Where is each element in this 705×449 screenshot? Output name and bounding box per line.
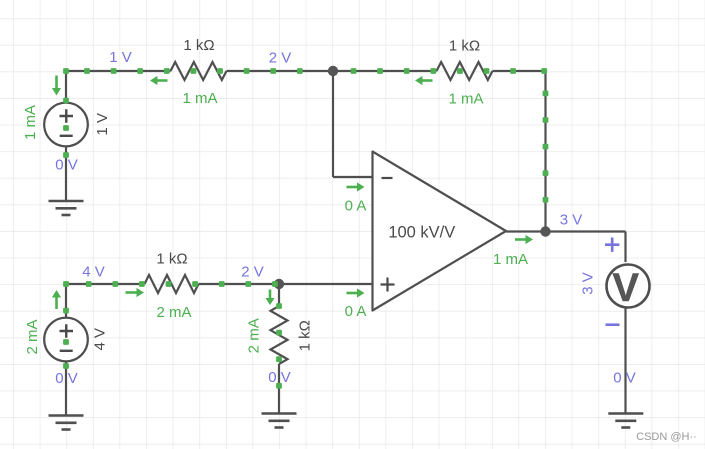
svg-text:2 mA: 2 mA (156, 304, 191, 321)
resistor R3 1 kOhm (input bottom) (145, 275, 199, 293)
svg-text:2 mA: 2 mA (24, 319, 41, 354)
svg-text:0 V: 0 V (55, 157, 78, 174)
wire: R4 bottom to ground (278, 364, 280, 414)
wire: output node to voltmeter branch (546, 230, 626, 232)
current arrow at non-inverting input (right) (347, 292, 358, 295)
voltage source V1 (1 V) (44, 103, 88, 147)
svg-text:3 V: 3 V (560, 212, 583, 229)
svg-text:2 V: 2 V (269, 50, 292, 67)
wire: to op-amp inverting input (333, 176, 374, 178)
ground under V2 (49, 414, 84, 417)
current arrow into R4 (down) (269, 290, 272, 299)
svg-text:2 V: 2 V (241, 264, 264, 281)
wire: V2 top to bottom rail (65, 284, 67, 318)
svg-text:4 V: 4 V (82, 264, 105, 281)
op-amp U1 non-inverting pin mark (381, 278, 395, 292)
current arrow at R3 (right) (126, 291, 137, 294)
svg-text:0 A: 0 A (345, 198, 367, 215)
svg-text:V: V (612, 266, 639, 310)
svg-text:4 V: 4 V (92, 328, 109, 351)
svg-text:100 kV/V: 100 kV/V (388, 224, 455, 242)
resistor R1 1 kOhm (input top) (171, 62, 227, 80)
wire: node B to op-amp non-inverting input (279, 283, 374, 285)
svg-text:1 mA: 1 mA (493, 251, 528, 268)
svg-text:1 kΩ: 1 kΩ (449, 38, 480, 55)
op-amp U1 (373, 152, 507, 311)
wire: R3 to node B (199, 283, 280, 285)
wire: R1 to node A (227, 70, 334, 72)
ground under R4 (262, 412, 297, 415)
node A (2 V junction, top) (328, 66, 338, 76)
voltmeter VM1 minus terminal mark (606, 323, 620, 326)
svg-text:1 kΩ: 1 kΩ (156, 251, 187, 268)
voltmeter VM1 (607, 265, 650, 308)
wire: VM1 bottom to ground (624, 307, 626, 414)
wire: voltmeter branch down to VM1 (624, 232, 626, 263)
wire: V1 bottom to ground (65, 146, 67, 201)
svg-text:1 V: 1 V (94, 113, 111, 136)
svg-text:1 V: 1 V (109, 49, 132, 66)
svg-text:1 mA: 1 mA (22, 105, 39, 140)
svg-text:0 V: 0 V (613, 370, 636, 387)
wire: R2 to feedback corner (493, 70, 546, 72)
resistor R2 1 kOhm (feedback) (437, 62, 493, 80)
node OUT (3 V output junction) (540, 226, 550, 236)
op-amp U1 inverting pin mark (382, 177, 393, 179)
wire: op-amp output to output node (506, 230, 546, 232)
current arrow at R1 (left) (158, 79, 168, 82)
svg-text:CSDN @H··: CSDN @H·· (636, 431, 697, 443)
wire: node A down to inverting input row (332, 71, 334, 177)
current arrow into V1 (down) (55, 76, 58, 89)
current arrow at R2 (left) (423, 79, 433, 82)
wire: node A to R2 (333, 70, 437, 72)
wire: bottom rail to R3 (66, 283, 145, 285)
svg-text:1 kΩ: 1 kΩ (183, 37, 214, 54)
svg-text:3 V: 3 V (580, 272, 597, 295)
node B (2 V junction, bottom) (274, 279, 284, 289)
current arrow at op-amp output (right) (515, 238, 526, 241)
current arrow at inverting input (right) (347, 186, 358, 189)
voltmeter VM1 plus terminal mark (605, 238, 619, 252)
svg-text:0 V: 0 V (268, 369, 291, 386)
current flow dots (green) (84, 68, 90, 74)
wire: node B down to R4 (278, 284, 280, 306)
svg-text:1 mA: 1 mA (182, 90, 217, 107)
wire: top rail left segment to R1 (66, 70, 171, 72)
svg-text:1 kΩ: 1 kΩ (297, 320, 314, 351)
wire: V2 bottom to ground (65, 361, 67, 416)
svg-text:0 A: 0 A (345, 303, 367, 320)
resistor R4 1 kOhm (to ground, vertical) (271, 306, 288, 364)
svg-text:1 mA: 1 mA (448, 91, 483, 108)
wire: feedback vertical down to output node (544, 71, 546, 232)
wire: V1 top to top rail corner (65, 71, 67, 103)
voltage source V2 (4 V) (44, 318, 88, 362)
svg-text:2 mA: 2 mA (246, 318, 263, 353)
ground under voltmeter VM1 (608, 412, 643, 415)
svg-text:0 V: 0 V (55, 370, 78, 387)
current arrow out of V2 (up) (55, 298, 58, 310)
ground under V1 (49, 200, 84, 203)
